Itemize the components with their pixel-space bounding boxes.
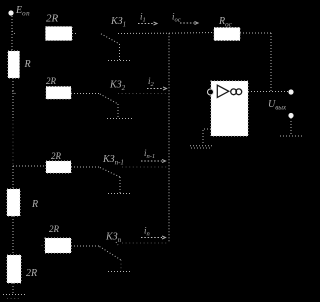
terminal E_op — [8, 10, 13, 15]
resistor R_oc — [214, 28, 240, 41]
op-amp triangle symbol — [217, 85, 229, 97]
svg-text:R: R — [24, 59, 31, 70]
svg-text:2R: 2R — [49, 224, 60, 234]
terminal U_out upper — [288, 89, 293, 94]
current arrow i1 — [138, 23, 154, 25]
wire: rail from E_op down to R1 — [11, 16, 13, 51]
wire row4 resistor to switch — [71, 245, 99, 247]
wire: rail segment R2 to 2R terminator — [12, 216, 14, 255]
wire row3 resistor to switch — [71, 166, 100, 168]
current arrow i_n — [141, 237, 162, 239]
wire faint KZ2 contact to bus — [118, 93, 168, 95]
wire: node3 branch to 2R row3 — [13, 165, 46, 167]
current arrow i(n-1) — [141, 160, 162, 162]
wire: top summing rail — [118, 33, 214, 34]
switch KZn upper contact tick — [116, 242, 118, 245]
current arrow i2 — [147, 88, 163, 90]
resistor 2R row3 — [46, 161, 71, 173]
wire: feedback vertical — [270, 33, 272, 92]
common bar — [280, 135, 303, 137]
wire row2 resistor to switch — [71, 93, 100, 95]
terminal U_out lower — [288, 113, 293, 118]
op-amp inverting input circle — [208, 89, 214, 95]
node2 stub — [13, 91, 17, 95]
current arrow i_oc — [180, 22, 195, 24]
wire: KZ(n-1) to ground — [119, 177, 121, 193]
ground KZ2 — [107, 118, 132, 120]
ground KZ1 — [108, 60, 132, 62]
svg-text:R: R — [31, 199, 38, 210]
node stub at top 2R branch — [12, 31, 16, 35]
wire: KZ2 to ground — [117, 104, 119, 118]
wire: summing bus vertical — [168, 33, 170, 243]
switch KZn arm — [100, 247, 122, 261]
op-amp U1 body — [211, 81, 248, 136]
wire faint KZn contact to bus — [122, 242, 168, 244]
op-amp infinity symbol — [231, 89, 237, 95]
ground bottom-left — [12, 283, 14, 294]
resistor 2R row4 — [45, 238, 71, 253]
switch KZ2 arm — [100, 94, 118, 104]
switch KZ(n-1) arm — [100, 168, 120, 178]
wire: lower terminal to common — [290, 118, 292, 136]
ground KZ(n-1) — [108, 193, 132, 195]
wire stub row1 resistor output — [72, 33, 77, 35]
resistor 2R terminator (vertical) — [7, 255, 21, 283]
ground op-amp — [190, 145, 213, 147]
wire: rail segment R1 to node2 — [12, 78, 14, 120]
wire: KZ1 to ground — [119, 44, 121, 60]
wire: op-amp output — [248, 91, 288, 93]
wire: rail sparse segment — [12, 120, 14, 166]
switch KZ1 arm — [101, 34, 120, 44]
resistor R1 (vertical R) — [8, 51, 20, 78]
ground KZn — [108, 271, 131, 273]
svg-text:2R: 2R — [26, 268, 37, 279]
resistor 2R row2 — [46, 87, 71, 100]
svg-text:2R: 2R — [46, 13, 59, 25]
wire faint KZ(n-1) contact to bus — [122, 166, 168, 168]
svg-text:2R: 2R — [51, 151, 62, 161]
wire stub row4 resistor left — [42, 245, 46, 247]
resistor 2R row1 — [46, 27, 73, 41]
resistor R2 (vertical R) — [7, 189, 20, 216]
wire: non-inverting input — [203, 129, 211, 145]
wire: KZn to ground (faint) — [120, 260, 122, 271]
svg-text:2R: 2R — [46, 76, 57, 86]
wire: rail segment node3 to R2 — [12, 166, 14, 189]
wire: R_oc to feedback corner — [240, 32, 271, 34]
